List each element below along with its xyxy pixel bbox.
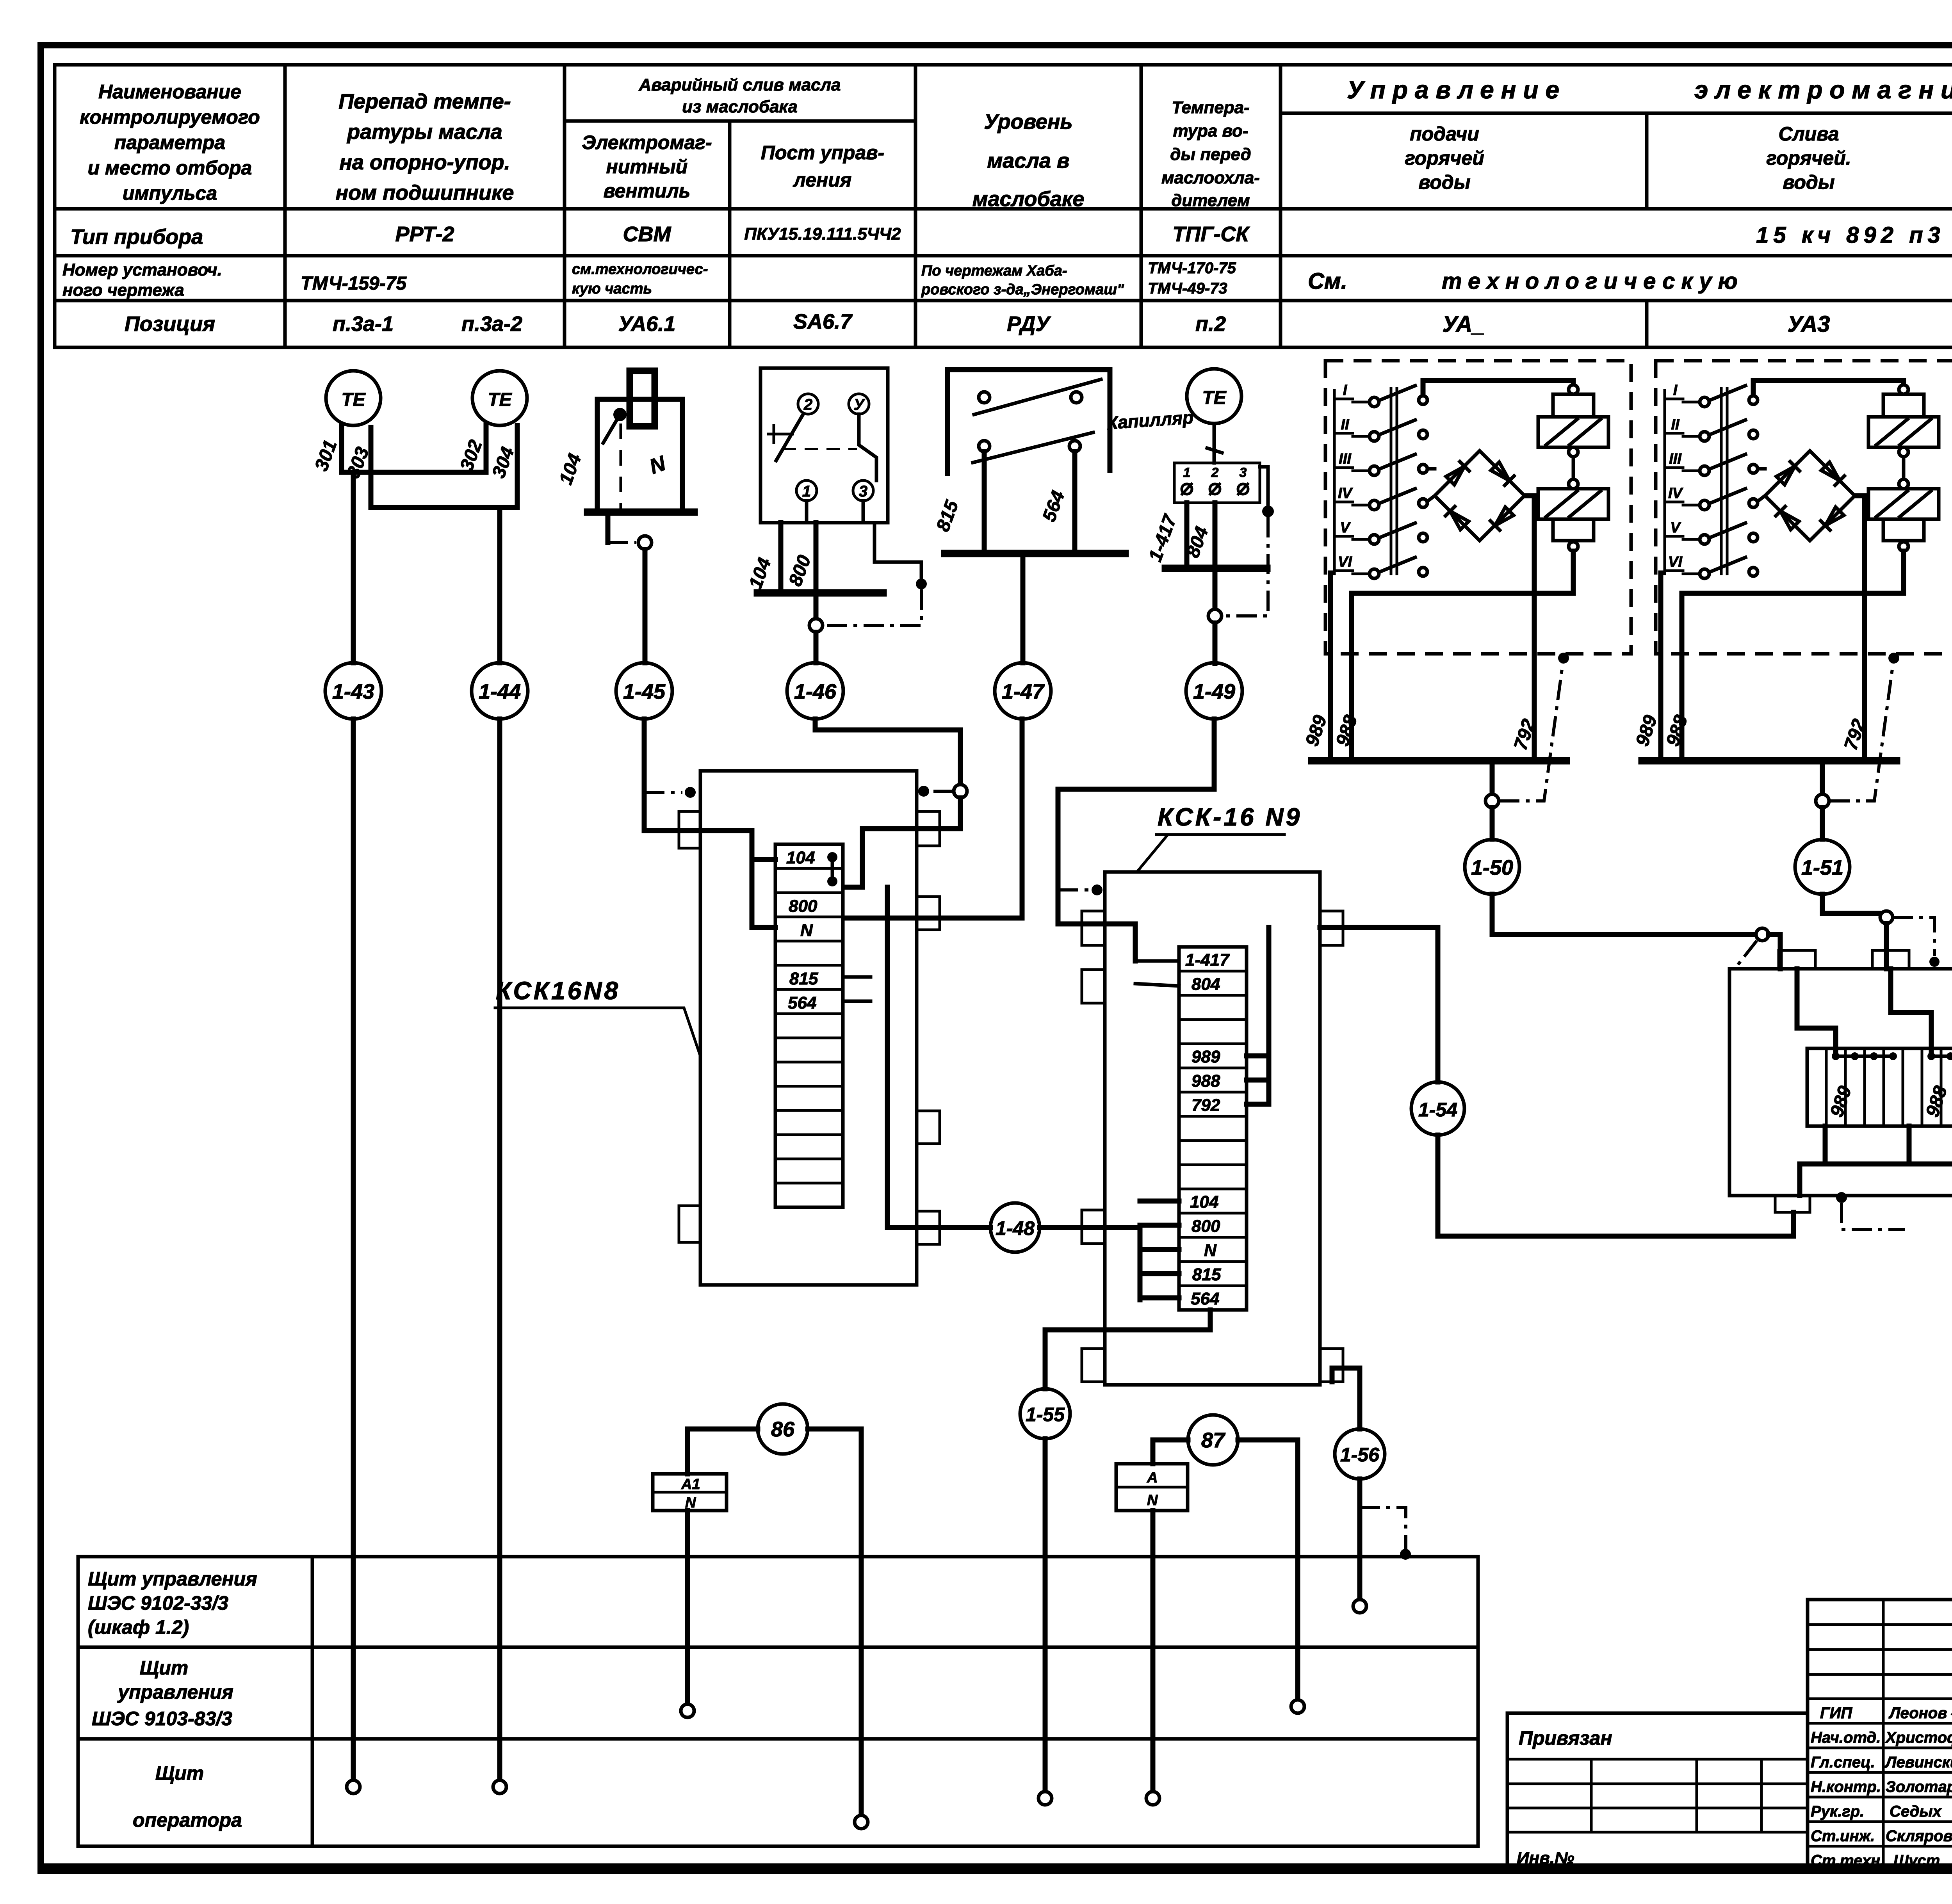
stubs terminals 815 564 bbox=[844, 977, 871, 1001]
svg-text:Инв.№: Инв.№ bbox=[1517, 1849, 1574, 1868]
terminal У bbox=[849, 394, 869, 414]
svg-text:горячей: горячей bbox=[1405, 147, 1484, 169]
svg-text:Золотарева: Золотарева bbox=[1886, 1778, 1952, 1795]
svg-text:КСК16N8: КСК16N8 bbox=[496, 977, 620, 1005]
signature rows bbox=[1811, 1705, 1952, 1869]
wire 1-56 down to panel bbox=[1357, 1479, 1362, 1599]
wire 800 from box bbox=[814, 523, 819, 593]
dashed coupling bbox=[783, 448, 857, 450]
dashed actuator line bbox=[620, 424, 622, 512]
svg-text:контролируемого: контролируемого bbox=[80, 106, 260, 128]
svg-text:ратуры масла: ратуры масла bbox=[346, 120, 502, 144]
sub header: подачи горячей воды bbox=[1405, 123, 1484, 193]
svg-text:см.технологичес-: см.технологичес- bbox=[572, 261, 708, 278]
svg-text:1-46: 1-46 bbox=[794, 680, 837, 703]
wire 104 from box bbox=[778, 523, 784, 593]
circle 1-54 bbox=[1411, 1082, 1464, 1135]
svg-text:См.: См. bbox=[1308, 269, 1347, 294]
lever to terminal 3 bbox=[859, 414, 876, 480]
svg-text:ТМЧ-159-75: ТМЧ-159-75 bbox=[301, 273, 407, 294]
svg-text:ПКУ15.19.111.5ЧЧ2: ПКУ15.19.111.5ЧЧ2 bbox=[744, 224, 901, 244]
panel rows frame bbox=[78, 1557, 1478, 1846]
leads to bus bbox=[984, 452, 1075, 553]
mounting tabs N9 bbox=[1082, 911, 1343, 1382]
svg-text:N: N bbox=[1147, 1492, 1158, 1509]
wire N9 to valve bank feed bbox=[1320, 927, 1438, 1082]
signature table grid bbox=[1808, 1600, 1952, 1870]
wire 1-47 to N8 terminal 800 bbox=[844, 719, 1022, 918]
svg-text:1-48: 1-48 bbox=[996, 1217, 1035, 1239]
wire А/N down bbox=[1151, 1511, 1156, 1791]
svg-text:2: 2 bbox=[1211, 465, 1219, 480]
drop with transfer circle bbox=[606, 512, 611, 543]
svg-text:Нач.отд.: Нач.отд. bbox=[1811, 1729, 1881, 1746]
table header column 2: Перепад температуры масла bbox=[336, 90, 514, 205]
terminal 1 bbox=[796, 480, 817, 501]
svg-text:ТМЧ-49-73: ТМЧ-49-73 bbox=[1148, 280, 1227, 297]
svg-text:маслобаке: маслобаке bbox=[972, 187, 1085, 211]
svg-text:15 кч 892 п3: 15 кч 892 п3 bbox=[1756, 222, 1945, 248]
internal feed from 1-51 bbox=[1891, 969, 1931, 1052]
svg-text:804: 804 bbox=[1192, 975, 1220, 994]
sub header: Слива горячей воды bbox=[1766, 123, 1851, 193]
terminal strip N8 bbox=[775, 844, 843, 1207]
svg-text:А: А bbox=[1147, 1470, 1158, 1486]
junction dot bbox=[1262, 505, 1274, 517]
svg-text:подачи: подачи bbox=[1410, 123, 1479, 145]
svg-text:1: 1 bbox=[1183, 465, 1191, 480]
thermocouple TE3 bbox=[1187, 369, 1241, 424]
terminal 2 bbox=[798, 394, 818, 414]
label Щит управления ШЭС 9102-33/3 (шкаф 1.2) bbox=[88, 1568, 257, 1638]
row: Позиция bbox=[125, 310, 1952, 337]
solenoid plunger bbox=[630, 371, 655, 426]
jumper group 988 bbox=[1927, 1052, 1952, 1060]
wire 1-54 to КСК-16 N10 bbox=[1438, 1135, 1793, 1236]
terminal stubs into N9 bbox=[1135, 961, 1179, 986]
dash-dot to panel dot bbox=[929, 790, 954, 793]
wire TE2 to 1-44 bbox=[497, 507, 502, 663]
svg-text:1-44: 1-44 bbox=[479, 680, 521, 703]
КСК-16 N9 body bbox=[1105, 872, 1320, 1385]
svg-text:1-417: 1-417 bbox=[1185, 950, 1230, 970]
svg-text:ШЭС 9102-33/3: ШЭС 9102-33/3 bbox=[88, 1592, 228, 1614]
svg-text:и место отбора: и место отбора bbox=[88, 157, 252, 179]
svg-text:Левинский: Левинский bbox=[1884, 1754, 1952, 1771]
drop to 1-47 bbox=[1021, 553, 1026, 663]
svg-text:УА6.1: УА6.1 bbox=[618, 312, 676, 336]
svg-text:п.3а-1: п.3а-1 bbox=[333, 312, 394, 336]
svg-text:горячей.: горячей. bbox=[1766, 147, 1851, 169]
svg-text:ровского з-да„Энергомаш": ровского з-да„Энергомаш" bbox=[921, 281, 1124, 298]
svg-text:SА6.7: SА6.7 bbox=[793, 310, 853, 333]
svg-text:оператора: оператора bbox=[133, 1809, 242, 1831]
svg-text:1-54: 1-54 bbox=[1418, 1099, 1457, 1121]
mounting tabs N8 bbox=[679, 811, 940, 1244]
wire N9 to 1-56 bbox=[1332, 1368, 1360, 1429]
svg-text:ТЕ: ТЕ bbox=[488, 390, 512, 410]
control post body bbox=[760, 368, 888, 523]
svg-text:1-50: 1-50 bbox=[1471, 856, 1513, 879]
contact pivot dot bbox=[613, 408, 627, 421]
row: Тип прибора bbox=[70, 222, 1945, 249]
wire 1-49 to КСК-16 N9 terminals 1-417/804 bbox=[1058, 719, 1214, 961]
valve control group 1 (УА2) bbox=[1302, 361, 1631, 839]
circle 1-50 bbox=[1465, 840, 1519, 894]
svg-text:ТМЧ-170-75: ТМЧ-170-75 bbox=[1148, 260, 1236, 277]
wire 1-46 to КСК16 N8 bbox=[815, 719, 960, 785]
svg-text:ления: ления bbox=[793, 169, 851, 191]
terminal labels N8 bbox=[786, 848, 818, 1013]
relay box А/N bbox=[1116, 1464, 1188, 1511]
branch to junction dot bbox=[874, 523, 921, 578]
svg-text:Уровень: Уровень bbox=[984, 110, 1072, 133]
circle 1-47 bbox=[995, 663, 1051, 719]
wire 87 right down to panel bbox=[1238, 1440, 1298, 1699]
contact circles top bbox=[979, 392, 990, 403]
svg-text:1-56: 1-56 bbox=[1340, 1444, 1380, 1466]
svg-text:параметра: параметра bbox=[114, 132, 225, 153]
svg-text:импульса: импульса bbox=[123, 182, 217, 204]
table header column 3: Аварийный слив масла из маслобака bbox=[639, 75, 841, 116]
open circle terminal bbox=[855, 1815, 868, 1829]
relay box А1/N bbox=[653, 1474, 727, 1511]
capillary lead bbox=[1207, 424, 1222, 463]
terminal strip N9 bbox=[1179, 947, 1247, 1310]
junction dot bbox=[1092, 884, 1102, 895]
svg-text:(шкаф 1.2): (шкаф 1.2) bbox=[88, 1616, 189, 1638]
table grid bbox=[55, 65, 1952, 347]
svg-text:Христофоров: Христофоров bbox=[1885, 1729, 1952, 1746]
svg-text:Щит: Щит bbox=[155, 1762, 204, 1784]
table header column 4: Уровень масла в маслобаке bbox=[972, 110, 1085, 211]
svg-text:1-55: 1-55 bbox=[1026, 1404, 1065, 1425]
table header span: Управление электромагнитными вентилями bbox=[1347, 76, 1952, 104]
circle 1-51 bbox=[1795, 840, 1850, 894]
svg-text:масла в: масла в bbox=[987, 149, 1069, 173]
svg-text:Пост управ-: Пост управ- bbox=[761, 142, 884, 164]
circle 87 bbox=[1188, 1415, 1238, 1465]
jumper dots terminal 1-2 bbox=[827, 852, 837, 886]
svg-text:1-47: 1-47 bbox=[1002, 680, 1045, 703]
terminal labels N9 bbox=[1185, 950, 1230, 1308]
mounting tabs N10 bbox=[1775, 950, 1952, 1212]
thermocouple TE2 bbox=[472, 371, 527, 425]
lever bottom bbox=[973, 432, 1093, 463]
svg-text:кую часть: кую часть bbox=[572, 281, 652, 297]
sub header: Электромагнитный вентиль bbox=[582, 132, 712, 202]
svg-text:3: 3 bbox=[859, 483, 867, 500]
jumper group 989 bbox=[1832, 1052, 1897, 1060]
svg-text:Номер установоч.: Номер установоч. bbox=[62, 260, 222, 279]
svg-text:А1: А1 bbox=[681, 1476, 700, 1493]
junction dot bbox=[918, 786, 929, 797]
dash-dot branch to panel edge bbox=[644, 791, 682, 794]
circle 1-56 bbox=[1335, 1429, 1385, 1479]
svg-text:Слива: Слива bbox=[1778, 123, 1839, 145]
wire А to 87 bbox=[1153, 1440, 1188, 1464]
label Щит управления ШЭС 9103-83/3 bbox=[92, 1657, 233, 1730]
svg-text:Наименование: Наименование bbox=[98, 81, 241, 103]
svg-text:Щит управления: Щит управления bbox=[88, 1568, 257, 1590]
device body 104 bbox=[597, 399, 682, 512]
circle 1-45 bbox=[616, 663, 672, 719]
drop with transfer circle bbox=[814, 593, 819, 618]
wire 1-44 down to operator panel bbox=[497, 719, 502, 1780]
wire А1/N down bbox=[685, 1511, 690, 1704]
terminal strip N10 bbox=[1807, 1048, 1952, 1126]
terminal strip N10 cell dividers bbox=[1826, 1048, 1952, 1126]
svg-text:По чертежам Хаба-: По чертежам Хаба- bbox=[921, 263, 1067, 279]
svg-text:нитный: нитный bbox=[606, 156, 688, 178]
dash-dot branch bbox=[1058, 888, 1089, 891]
svg-text:1: 1 bbox=[802, 483, 811, 500]
svg-text:электромагнитными: электромагнитными bbox=[1694, 76, 1952, 104]
svg-text:ТПГ-СК: ТПГ-СК bbox=[1172, 222, 1250, 246]
svg-text:У: У bbox=[853, 396, 865, 413]
open circle terminal bbox=[1291, 1700, 1304, 1713]
wire 1-43 down to operator panel bbox=[351, 719, 356, 1780]
svg-text:ШЭС 9103-83/3: ШЭС 9103-83/3 bbox=[92, 1708, 232, 1730]
bus bar under control post bbox=[757, 589, 883, 597]
wire N9 to 1-55 bbox=[1045, 1310, 1210, 1389]
svg-text:104: 104 bbox=[786, 848, 815, 867]
svg-text:п.2: п.2 bbox=[1195, 312, 1226, 336]
dash-dot link down bbox=[1222, 517, 1268, 616]
svg-text:Н.контр.: Н.контр. bbox=[1811, 1778, 1881, 1795]
wire 1-51 to N10 bbox=[1822, 894, 1880, 913]
bus bar bbox=[945, 550, 1125, 557]
circle 1-48 bbox=[990, 1203, 1040, 1252]
circle 1-44 bbox=[472, 663, 528, 719]
svg-text:3: 3 bbox=[1240, 465, 1247, 480]
internal riser to bottom outlet bbox=[887, 887, 990, 1228]
svg-text:воды: воды bbox=[1418, 171, 1470, 193]
open circle terminal bbox=[1038, 1792, 1052, 1805]
contact circles bottom bbox=[979, 441, 990, 452]
svg-text:на опорно-упор.: на опорно-упор. bbox=[339, 151, 510, 174]
svg-text:1-49: 1-49 bbox=[1193, 680, 1235, 703]
open circle terminal bbox=[347, 1780, 360, 1794]
circle 1-43 bbox=[325, 663, 381, 719]
leads 1-417 and 804 bbox=[1187, 503, 1215, 568]
svg-text:Щит: Щит bbox=[140, 1657, 188, 1679]
phi contact symbols bbox=[1182, 484, 1248, 494]
svg-text:ТЕ: ТЕ bbox=[341, 390, 366, 410]
open circle terminal bbox=[1353, 1600, 1366, 1613]
svg-text:технологическую: технологическую bbox=[1442, 269, 1744, 294]
svg-text:ного чертежа: ного чертежа bbox=[62, 281, 184, 300]
svg-text:ТЕ: ТЕ bbox=[1202, 388, 1227, 408]
table header column 1: Наименование контролируемого параметра bbox=[80, 81, 260, 204]
svg-text:СВМ: СВМ bbox=[623, 222, 671, 246]
svg-text:из маслобака: из маслобака bbox=[682, 97, 798, 116]
switch frame bbox=[948, 370, 1110, 473]
svg-text:Аварийный слив масла: Аварийный слив масла bbox=[639, 75, 841, 94]
svg-text:Рук.гр.: Рук.гр. bbox=[1811, 1803, 1864, 1820]
circle 1-49 bbox=[1186, 663, 1242, 719]
svg-text:Ст.техн.: Ст.техн. bbox=[1811, 1852, 1884, 1869]
terminal 3 bbox=[853, 480, 873, 501]
svg-text:Позиция: Позиция bbox=[125, 312, 215, 336]
svg-text:УА3: УА3 bbox=[1787, 311, 1830, 337]
svg-text:УА_: УА_ bbox=[1442, 311, 1485, 337]
dash-dot branch of 1-56 bbox=[1360, 1507, 1406, 1550]
svg-text:РДУ: РДУ bbox=[1007, 312, 1051, 336]
side branch with dot bbox=[1260, 467, 1268, 506]
svg-text:п.3а-2: п.3а-2 bbox=[461, 312, 522, 336]
table header column 5: Температура воды перед маслоохладителем bbox=[1161, 98, 1260, 210]
drop with transfer circle bbox=[1213, 568, 1218, 609]
svg-text:ды перед: ды перед bbox=[1170, 145, 1251, 164]
svg-text:Управление: Управление bbox=[1347, 76, 1566, 104]
svg-text:800: 800 bbox=[1192, 1217, 1220, 1236]
valve control group 2 (УА3) bbox=[1632, 361, 1952, 839]
КСК-16 N10 body bbox=[1729, 969, 1952, 1196]
svg-text:86: 86 bbox=[771, 1418, 795, 1441]
open circle terminal bbox=[493, 1780, 506, 1794]
circle 1-55 bbox=[1020, 1389, 1070, 1439]
svg-text:тура во-: тура во- bbox=[1173, 121, 1248, 141]
circle 86 bbox=[758, 1404, 808, 1454]
svg-text:N: N bbox=[800, 921, 813, 940]
terminal marks 1 2 3 bbox=[1183, 465, 1247, 480]
internal riser 989/988/792 to top outlet bbox=[1247, 927, 1269, 1104]
svg-text:КСК-16 N9: КСК-16 N9 bbox=[1158, 803, 1302, 831]
svg-text:1-45: 1-45 bbox=[623, 680, 666, 703]
svg-text:564: 564 bbox=[1191, 1289, 1219, 1308]
svg-text:104: 104 bbox=[1190, 1192, 1218, 1212]
svg-text:87: 87 bbox=[1201, 1429, 1226, 1452]
svg-text:Шуст: Шуст bbox=[1893, 1852, 1940, 1869]
svg-text:Склярова: Склярова bbox=[1886, 1827, 1952, 1845]
wire into terminal 2 of N8 bbox=[844, 798, 960, 887]
КСК16 N8 body bbox=[700, 771, 917, 1285]
svg-text:маслоохла-: маслоохла- bbox=[1161, 168, 1260, 187]
attachment box Привязан bbox=[1507, 1713, 1808, 1870]
svg-text:ном подшипнике: ном подшипнике bbox=[336, 181, 514, 205]
junction dot on panel line bbox=[1400, 1549, 1411, 1560]
svg-text:воды: воды bbox=[1783, 171, 1834, 193]
bus bar under 104 device bbox=[588, 509, 694, 516]
svg-text:564: 564 bbox=[788, 993, 816, 1013]
rest contact symbol bbox=[768, 425, 793, 443]
internal bottom loop bbox=[1800, 1126, 1952, 1196]
wire tails TE2 bbox=[486, 425, 517, 507]
contact lever bbox=[603, 415, 620, 443]
dash-dot tail bbox=[1842, 1203, 1905, 1230]
svg-text:1-51: 1-51 bbox=[1801, 856, 1843, 879]
row: Номер установочного чертежа bbox=[62, 260, 1952, 300]
dash-dot link bbox=[825, 589, 921, 625]
terminal strip N9 cell dividers bbox=[1179, 971, 1247, 1286]
open circle terminal bbox=[1146, 1792, 1159, 1805]
junction dot bbox=[916, 578, 927, 589]
wire TE1 to 1-43 bbox=[351, 472, 356, 663]
wire 1-50 to N10 bbox=[1492, 894, 1755, 934]
wire tails TE1 bbox=[342, 425, 517, 507]
internal feed from 1-50 bbox=[1797, 969, 1836, 1052]
wire 1-48 to КСК-16 N9 terminals bbox=[1040, 1201, 1179, 1300]
open circle terminal bbox=[681, 1704, 694, 1717]
svg-text:815: 815 bbox=[789, 969, 818, 988]
switch lever bbox=[776, 414, 803, 461]
svg-text:Леонов: Леонов bbox=[1888, 1705, 1947, 1722]
thermocouple TE1 bbox=[326, 371, 381, 425]
junction dot bbox=[685, 787, 696, 798]
svg-text:РРТ-2: РРТ-2 bbox=[395, 222, 454, 246]
svg-text:815: 815 bbox=[1192, 1265, 1221, 1284]
label КСК16N8 with leader bbox=[495, 977, 700, 1056]
svg-text:792: 792 bbox=[1192, 1096, 1220, 1115]
svg-text:2: 2 bbox=[803, 396, 812, 413]
svg-text:вентиль: вентиль bbox=[604, 180, 691, 202]
transfer circle at panel bbox=[954, 785, 967, 798]
svg-text:Темпера-: Темпера- bbox=[1172, 98, 1250, 117]
thermostat head box bbox=[1174, 463, 1260, 503]
sub header: Пост управления bbox=[761, 142, 884, 191]
wire 1-55 down to panel bbox=[1043, 1439, 1048, 1791]
svg-text:Седых: Седых bbox=[1890, 1803, 1942, 1820]
svg-text:Перепад темпе-: Перепад темпе- bbox=[338, 90, 511, 113]
svg-text:Гл.спец.: Гл.спец. bbox=[1811, 1754, 1875, 1771]
svg-text:Тип прибора: Тип прибора bbox=[70, 225, 203, 249]
svg-text:800: 800 bbox=[789, 897, 817, 916]
svg-text:989: 989 bbox=[1192, 1047, 1220, 1066]
wire 86 down to panel bbox=[808, 1429, 861, 1815]
circle 1-46 bbox=[787, 663, 843, 719]
wire А1 to 86 bbox=[687, 1429, 758, 1474]
terminal labels N10 bbox=[1826, 1084, 1952, 1120]
svg-text:управления: управления bbox=[117, 1681, 233, 1703]
label Щит оператора bbox=[133, 1762, 242, 1831]
svg-text:1-43: 1-43 bbox=[332, 680, 374, 703]
svg-text:N: N bbox=[1204, 1241, 1217, 1260]
svg-text:дителем: дителем bbox=[1171, 191, 1250, 210]
svg-text:Привязан: Привязан bbox=[1519, 1727, 1612, 1749]
svg-text:Электромаг-: Электромаг- bbox=[582, 132, 712, 153]
lever top bbox=[974, 379, 1101, 415]
svg-text:988: 988 bbox=[1192, 1071, 1220, 1091]
svg-text:Ст.инж.: Ст.инж. bbox=[1811, 1827, 1875, 1845]
terminal strip N8 cell dividers bbox=[775, 868, 843, 1183]
junction dot at N10 tab bbox=[1836, 1192, 1847, 1203]
wire 1-45 to КСК16 N8 terminal 104/N bbox=[644, 719, 775, 927]
terminal leads inside bbox=[807, 501, 863, 523]
label КСК-16 N9 with leader bbox=[1137, 803, 1302, 872]
svg-text:ГИП: ГИП bbox=[1820, 1705, 1852, 1722]
bus bar bbox=[1165, 565, 1267, 572]
